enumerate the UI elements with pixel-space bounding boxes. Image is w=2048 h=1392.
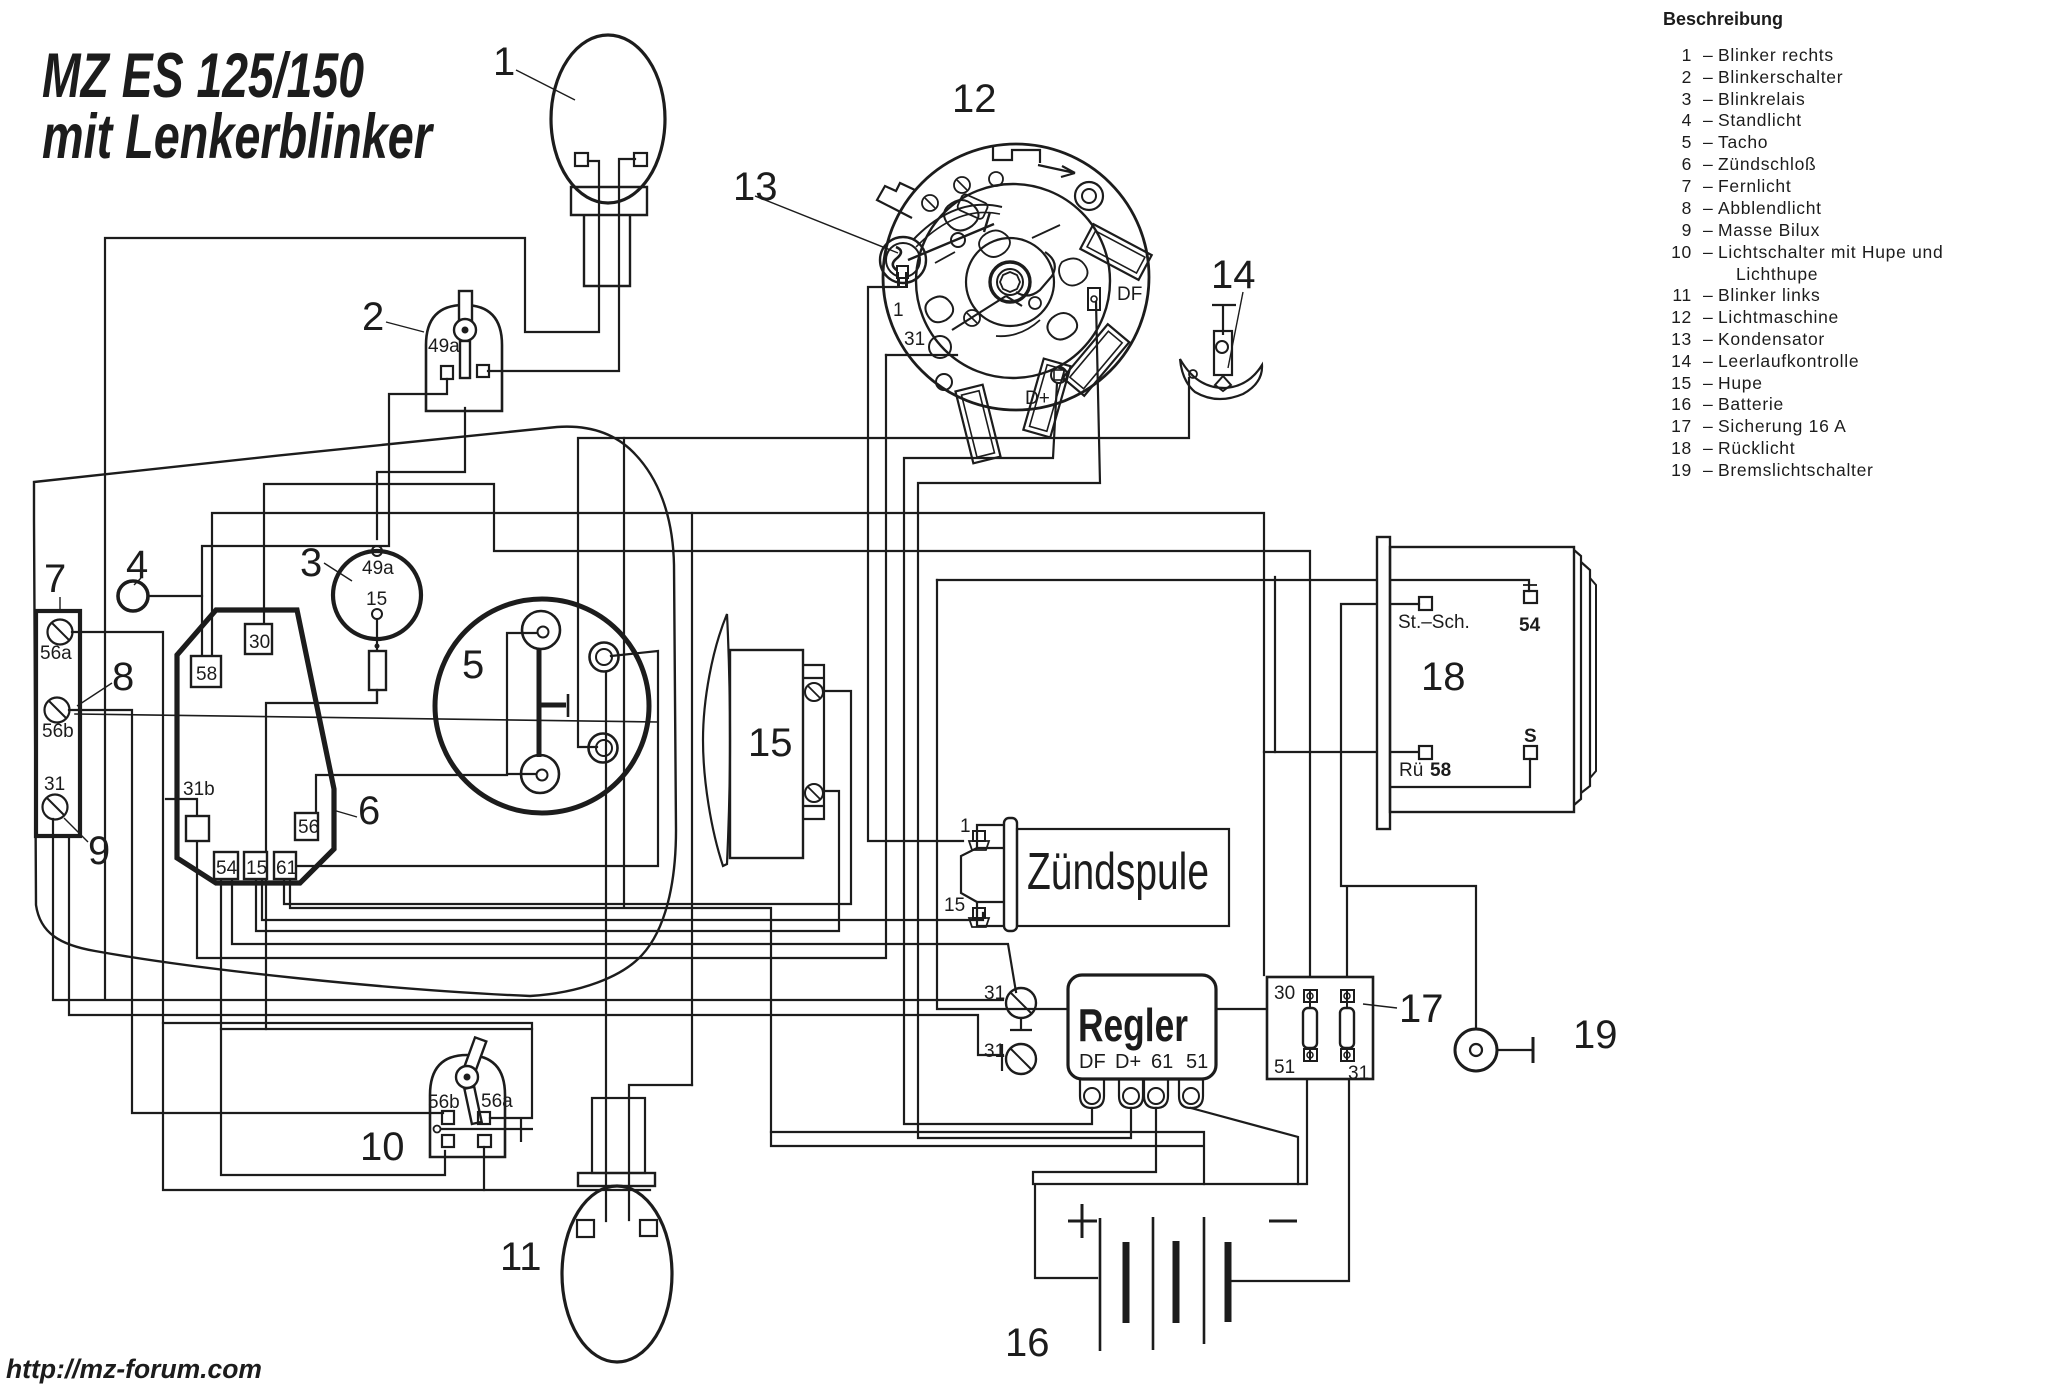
wire switch2 left terminal to terminal 58	[202, 379, 447, 656]
wire lichtmaschine D+ to regler DF lug	[904, 383, 1092, 1124]
standlicht 4	[118, 581, 148, 611]
svg-text:14: 14	[1671, 351, 1692, 371]
wire thin diagonal through tacho	[75, 714, 658, 722]
tacho needle bar	[537, 649, 542, 757]
lichtmaschine pole shoe bottom-mid	[1023, 359, 1070, 438]
svg-text:49a: 49a	[428, 336, 460, 357]
svg-text:D+: D+	[1115, 1051, 1141, 1073]
wire blinker1 left terminal to headlamp run	[105, 161, 599, 999]
svg-text:14: 14	[1211, 253, 1256, 297]
zuendspule coil core	[1004, 818, 1017, 931]
wire branch to switch10 56a	[163, 1023, 532, 1118]
svg-text:Sicherung 16 A: Sicherung 16 A	[1718, 416, 1847, 436]
svg-text:1: 1	[893, 300, 904, 321]
batterie plate short 1	[1123, 1242, 1130, 1323]
svg-text:16: 16	[1005, 1321, 1050, 1365]
svg-text:–: –	[1703, 132, 1713, 152]
svg-text:–: –	[1703, 460, 1713, 480]
svg-text:2: 2	[362, 295, 384, 339]
wire terminal 15 to zuendspule 15	[262, 879, 983, 920]
screw 31	[43, 795, 68, 820]
screw 56b	[45, 698, 70, 723]
lichtmaschine pole shoe upper-right	[1080, 224, 1151, 280]
zuendspule bolt 1	[973, 831, 985, 841]
svg-text:51: 51	[1186, 1051, 1208, 1073]
lichtmaschine hub	[966, 238, 1054, 326]
svg-text:30: 30	[1274, 983, 1295, 1004]
wire terminal 31b to lichtmaschine 31	[166, 355, 886, 958]
kondensator terminal	[897, 266, 908, 278]
wire regler 61 lug down	[1033, 1108, 1156, 1184]
headlamp housing outline	[34, 427, 676, 996]
svg-text:Leerlaufkontrolle: Leerlaufkontrolle	[1718, 351, 1859, 371]
wire branch down from leerlauf run	[623, 438, 625, 907]
switch 2 toggle stem	[459, 291, 472, 328]
svg-text:Blinkerschalter: Blinkerschalter	[1718, 67, 1843, 87]
wire relais 49a to switch2 lever	[377, 408, 465, 539]
wire ruecklicht rue58 long	[1264, 751, 1417, 753]
blinkerschalter 2 dome	[426, 305, 502, 411]
svg-text:–: –	[1703, 242, 1713, 262]
terminal box 61	[274, 852, 296, 879]
lichtmaschine terminal 1 stem	[898, 272, 906, 287]
wire inner vertical to rue58	[1274, 577, 1276, 752]
wire ruecklicht 54 feed	[937, 580, 1529, 591]
regler lug D+	[1119, 1079, 1143, 1108]
relais 3 terminal 15	[372, 609, 382, 619]
svg-text:Beschreibung: Beschreibung	[1663, 9, 1783, 29]
svg-text:Bremslichtschalter: Bremslichtschalter	[1718, 460, 1874, 480]
wire terminal 56a to regler 61 lug	[72, 632, 650, 1190]
wire masse run to regler lower 31 screw	[69, 836, 1003, 1055]
switch 2 terminal right	[477, 365, 489, 377]
switch 10 linkage	[440, 1118, 533, 1142]
svg-text:Hupe: Hupe	[1718, 373, 1763, 393]
svg-text:–: –	[1703, 351, 1713, 371]
svg-text:54: 54	[1519, 615, 1541, 636]
kondensator 13 body	[880, 237, 926, 283]
svg-text:–: –	[1703, 154, 1713, 174]
lichtmaschine lower arm	[952, 296, 1022, 330]
svg-text:Regler: Regler	[1078, 999, 1188, 1051]
svg-text:31b: 31b	[183, 779, 215, 800]
svg-text:–: –	[1703, 67, 1713, 87]
svg-text:–: –	[1703, 176, 1713, 196]
lichtmaschine breaker screws	[922, 195, 938, 211]
svg-text:D+: D+	[1025, 388, 1050, 409]
lichtmaschine inner blobs	[944, 200, 979, 231]
terminal box 58	[191, 656, 221, 687]
wire terminal 58 long run to fuse box	[212, 513, 1264, 975]
lichtmaschine mounting lug left	[877, 183, 915, 218]
lichtmaschine rotation arrow	[1038, 165, 1075, 177]
svg-text:7: 7	[1682, 176, 1692, 196]
svg-text:4: 4	[1682, 110, 1692, 130]
svg-text:Rücklicht: Rücklicht	[1718, 438, 1795, 458]
zuendspule bolt 15	[973, 908, 985, 918]
lichtmaschine cam	[1016, 252, 1055, 296]
fernlicht/abblend terminal strip 7-8-9	[36, 611, 80, 836]
svg-text:–: –	[1703, 198, 1713, 218]
svg-text:15: 15	[748, 721, 793, 765]
wire ruecklicht S internal	[1390, 759, 1530, 787]
svg-text:–: –	[1703, 373, 1713, 393]
regler lug 61	[1144, 1079, 1168, 1108]
svg-text:31: 31	[44, 774, 65, 795]
wire branch parallel	[221, 1028, 532, 1030]
svg-text:4: 4	[126, 543, 148, 587]
ruecklicht terminal 54	[1524, 591, 1537, 603]
svg-text:12: 12	[952, 77, 997, 121]
leader lines	[60, 70, 1397, 1008]
wire standlicht 4 to terminal 58	[148, 595, 202, 597]
zuendspule flange bottom	[977, 902, 1004, 926]
switch 10 pivot	[456, 1066, 478, 1088]
switch 10 terminal 56b	[442, 1111, 454, 1124]
wire terminal 54 to switch10 lower-left	[221, 879, 445, 1175]
wire leerlaufkontrolle 14 down-left	[578, 378, 1189, 747]
switch 2 terminal left	[441, 366, 453, 379]
svg-text:49a: 49a	[362, 558, 394, 579]
svg-text:13: 13	[1671, 329, 1692, 349]
svg-text:19: 19	[1573, 1013, 1618, 1057]
wire relais resistor bottom left-down	[266, 690, 377, 1029]
wire battery minus to fuse 31	[1232, 1061, 1349, 1281]
svg-text:Zündschloß: Zündschloß	[1718, 154, 1816, 174]
blinker links 11 lamp body	[562, 1186, 672, 1362]
svg-text:31: 31	[984, 1041, 1005, 1062]
tacho lamp right-bottom	[589, 734, 618, 763]
wire terminal 61 to tacho lamp	[295, 651, 658, 866]
svg-text:18: 18	[1671, 438, 1692, 458]
svg-text:2: 2	[1682, 67, 1692, 87]
svg-text:Fernlicht: Fernlicht	[1718, 176, 1791, 196]
svg-text:6: 6	[358, 789, 380, 833]
svg-text:6: 6	[1682, 154, 1692, 174]
svg-text:http://mz-forum.com: http://mz-forum.com	[6, 1354, 262, 1384]
svg-text:17: 17	[1399, 987, 1444, 1031]
sicherung 17 box	[1267, 977, 1373, 1079]
hupe screw bottom	[805, 784, 823, 802]
svg-text:S: S	[1524, 726, 1537, 747]
blinker rechts 1 lamp body	[551, 35, 665, 203]
svg-text:8: 8	[1682, 198, 1692, 218]
svg-text:Tacho: Tacho	[1718, 132, 1768, 152]
wire tacho lamp bracket	[507, 633, 536, 774]
svg-text:DF: DF	[1079, 1051, 1106, 1073]
lichtmaschine top notch	[993, 146, 1040, 163]
ruecklicht terminal st-sch	[1419, 597, 1432, 610]
svg-text:58: 58	[1430, 760, 1451, 781]
terminal box 15	[244, 852, 267, 879]
svg-text:19: 19	[1671, 460, 1692, 480]
wire terminal 54 to regler 31 run	[232, 879, 1016, 992]
regler lug 51	[1179, 1079, 1203, 1108]
hupe bracket	[803, 665, 824, 819]
relais 3 series resistor	[376, 619, 378, 703]
svg-text:31: 31	[904, 329, 925, 350]
wire mid riser to dangle	[290, 879, 771, 1132]
wire terminal 56b to switch10 56b	[69, 710, 443, 1113]
svg-text:Masse Bilux: Masse Bilux	[1718, 220, 1820, 240]
ruecklicht terminal rue58	[1419, 746, 1432, 759]
relais 3 terminal 49a	[372, 546, 382, 556]
lichtmaschine pad plate	[956, 193, 988, 220]
batterie plate long 3	[1203, 1217, 1206, 1344]
wire regler 51 lug down	[1191, 1108, 1298, 1184]
svg-text:15: 15	[366, 589, 387, 610]
lichtmaschine DF bolt	[1088, 288, 1100, 310]
batterie minus sign	[1269, 1220, 1297, 1223]
batterie 16 plate long 1	[1099, 1218, 1102, 1351]
svg-text:10: 10	[360, 1125, 405, 1169]
svg-text:–: –	[1703, 110, 1713, 130]
wire terminal 61 to blinker riser	[284, 691, 851, 904]
svg-text:56a: 56a	[40, 643, 72, 664]
svg-text:–: –	[1703, 307, 1713, 327]
svg-text:9: 9	[88, 829, 110, 873]
screw 56a	[48, 620, 73, 645]
wire lichtmaschine 31 left	[886, 354, 957, 356]
svg-text:11: 11	[500, 1235, 542, 1279]
svg-text:Blinkrelais: Blinkrelais	[1718, 89, 1805, 109]
svg-text:15: 15	[1671, 373, 1692, 393]
svg-text:Blinker rechts: Blinker rechts	[1718, 45, 1834, 65]
svg-text:56b: 56b	[428, 1092, 460, 1113]
wire blinker11 right to masse run	[629, 1085, 692, 1220]
lichtschalter 10 dome	[430, 1055, 505, 1157]
wire lichtmaschine 1 to zuendspule 1	[868, 287, 963, 841]
svg-text:3: 3	[300, 541, 322, 585]
svg-text:5: 5	[1682, 132, 1692, 152]
lichtmaschine 12 outer	[883, 144, 1149, 410]
tacho needle crossbar	[539, 703, 566, 708]
svg-text:Rü: Rü	[1399, 760, 1423, 781]
wire ruecklicht st-sch to bremslichtschalter 19	[1341, 604, 1476, 1028]
svg-text:9: 9	[1682, 220, 1692, 240]
legend items	[1671, 45, 1943, 480]
svg-text:1: 1	[493, 40, 515, 84]
blinker 11 socket	[592, 1098, 645, 1173]
lichtmaschine pole shoe bottom-left	[955, 385, 1000, 464]
switch 10 terminal bottom-right	[478, 1135, 491, 1147]
svg-text:Batterie: Batterie	[1718, 394, 1784, 414]
wire big loop left and bottom	[937, 580, 1267, 1009]
component small labels	[40, 284, 1541, 1113]
svg-text:12: 12	[1671, 307, 1692, 327]
svg-text:16: 16	[1671, 394, 1692, 414]
zuendschloss 6 plate	[177, 610, 334, 883]
svg-text:–: –	[1703, 438, 1713, 458]
svg-text:11: 11	[1672, 285, 1692, 305]
batterie plus sign	[1068, 1204, 1097, 1238]
wire battery plus to fuse 51	[1035, 1061, 1307, 1278]
svg-text:15: 15	[944, 895, 965, 916]
svg-text:31: 31	[1348, 1063, 1369, 1084]
fuse right	[1340, 1008, 1354, 1048]
regler 31 screw lower	[1006, 1044, 1036, 1074]
lichtmaschine inner ring	[916, 184, 1110, 378]
tacho lamp bottom	[521, 755, 559, 793]
terminal box 54	[214, 852, 238, 879]
switch 10 lever upper	[461, 1037, 486, 1079]
zuendspule flange top	[977, 825, 1004, 848]
lichtmaschine D+ bolt	[1051, 367, 1067, 383]
blinkrelais 3 body	[333, 551, 421, 639]
tacho lamp right-top	[590, 643, 619, 672]
svg-text:St.–Sch.: St.–Sch.	[1398, 612, 1470, 633]
svg-text:Lichtschalter mit Hupe und: Lichtschalter mit Hupe und	[1718, 242, 1943, 262]
svg-text:mit Lenkerblinker: mit Lenkerblinker	[42, 102, 435, 172]
switch 2 pivot	[454, 319, 476, 341]
svg-text:DF: DF	[1117, 284, 1142, 305]
svg-text:–: –	[1703, 89, 1713, 109]
leerlauf 14 arc bracket	[1180, 359, 1262, 399]
hupe 15 body	[730, 650, 803, 858]
svg-text:–: –	[1703, 285, 1713, 305]
lichtmaschine pole shoe right	[1063, 324, 1129, 396]
ruecklicht 18 body	[1390, 547, 1574, 812]
svg-text:3: 3	[1682, 89, 1692, 109]
svg-text:56: 56	[298, 817, 319, 838]
blinker 1 terminal left	[575, 153, 588, 166]
svg-text:30: 30	[249, 632, 270, 653]
svg-text:Standlicht: Standlicht	[1718, 110, 1802, 130]
fuse left	[1303, 1008, 1317, 1048]
svg-text:–: –	[1703, 394, 1713, 414]
terminal box 30	[245, 624, 272, 654]
wire flat loop right of switch10	[771, 1132, 1204, 1184]
switch 10 terminal bottom-left	[442, 1135, 454, 1147]
wire blinker1 right terminal to switch2	[488, 159, 635, 371]
svg-text:58: 58	[196, 664, 217, 685]
svg-text:MZ ES 125/150: MZ ES 125/150	[42, 41, 364, 111]
svg-text:–: –	[1703, 220, 1713, 240]
svg-text:1: 1	[1682, 45, 1692, 65]
leerlaufkontrolle 14	[1212, 305, 1236, 335]
svg-text:–: –	[1703, 45, 1713, 65]
wire vertical right of hupe	[691, 513, 693, 1085]
lichtmaschine contact spring band	[913, 205, 1002, 240]
wire bremslicht 19 contact	[1497, 1049, 1531, 1051]
tacho 5 dial	[435, 599, 649, 813]
blinker 11 terminal right	[640, 1220, 657, 1236]
hupe 15 lens	[703, 614, 730, 866]
lichtmaschine breaker lever	[908, 212, 994, 260]
svg-text:31: 31	[984, 983, 1005, 1004]
regler lug DF	[1080, 1079, 1104, 1108]
ruecklicht terminal S	[1524, 746, 1537, 759]
wire zuendschloss 56 to tacho bracket	[316, 775, 507, 813]
batterie plate short 2	[1173, 1241, 1180, 1323]
blinker 11 terminal left	[577, 1220, 594, 1237]
svg-text:18: 18	[1421, 655, 1466, 699]
svg-text:Abblendlicht: Abblendlicht	[1718, 198, 1822, 218]
svg-text:Zündspule: Zündspule	[1027, 843, 1209, 901]
svg-text:–: –	[1703, 416, 1713, 436]
svg-text:Blinker links: Blinker links	[1718, 285, 1820, 305]
wire terminal 15 run a to hupe lower screw	[256, 791, 839, 931]
svg-text:–: –	[1703, 329, 1713, 349]
batterie plate short 3	[1225, 1242, 1232, 1322]
lichtmaschine extra links	[935, 225, 1060, 263]
svg-text:5: 5	[462, 643, 484, 687]
svg-text:15: 15	[246, 858, 267, 879]
lichtmaschine screw left	[929, 336, 951, 358]
svg-text:51: 51	[1274, 1057, 1295, 1078]
svg-text:61: 61	[1151, 1051, 1173, 1073]
hupe screw top	[805, 683, 823, 701]
svg-text:54: 54	[216, 858, 238, 879]
regler box	[1068, 975, 1216, 1079]
svg-text:7: 7	[44, 557, 66, 601]
switch 10 lever lower	[464, 1087, 481, 1124]
blinker 1 terminal right	[634, 153, 647, 166]
svg-text:Lichthupe: Lichthupe	[1736, 264, 1818, 284]
regler 31 screw upper	[1006, 988, 1036, 1018]
terminal box 56	[295, 813, 318, 840]
batterie plate long 2	[1152, 1217, 1155, 1350]
wire lichtmaschine DF to regler D+ lug	[918, 302, 1131, 1138]
switch 10 terminal 56a	[478, 1112, 490, 1124]
lichtmaschine small hole top-right	[1075, 182, 1103, 210]
wire terminal 31 strip to regler 31 screw	[53, 819, 1003, 1000]
switch 2 lever lower	[460, 341, 470, 378]
svg-text:56b: 56b	[42, 721, 74, 742]
svg-text:17: 17	[1671, 416, 1692, 436]
wire switch10 lower-right square down	[483, 1147, 485, 1190]
wire blinker11 left to tacho lamps	[605, 672, 607, 1221]
blinker 1 socket	[571, 187, 647, 286]
svg-text:Lichtmaschine: Lichtmaschine	[1718, 307, 1839, 327]
svg-text:61: 61	[276, 858, 297, 879]
bremslichtschalter 19	[1455, 1029, 1497, 1071]
zuendspule neck	[961, 848, 977, 902]
ruecklicht lens profile	[1574, 550, 1581, 805]
svg-text:1: 1	[960, 816, 971, 837]
svg-text:10: 10	[1671, 242, 1692, 262]
svg-text:Kondensator: Kondensator	[1718, 329, 1825, 349]
svg-text:56a: 56a	[481, 1091, 513, 1112]
terminal box 31b	[186, 816, 209, 841]
tacho lamp top	[522, 611, 560, 649]
ruecklicht 18 mount bar	[1377, 537, 1390, 829]
svg-text:8: 8	[112, 655, 134, 699]
zuendspule label box	[1017, 829, 1229, 926]
wire terminal 30 to fuse 30	[264, 484, 1310, 988]
